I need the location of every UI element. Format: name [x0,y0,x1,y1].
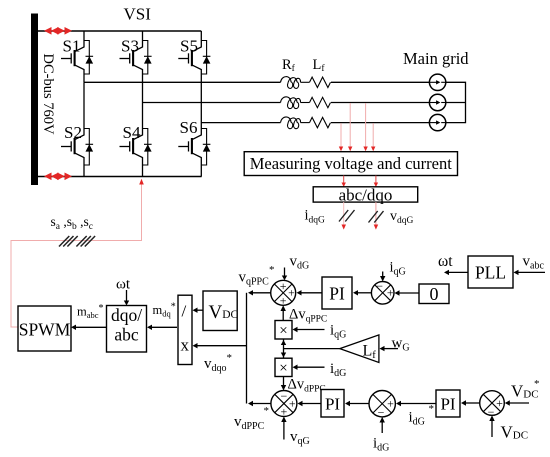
svg-text:/: / [182,302,187,321]
block zero reference [419,284,449,304]
inductor Rf phase A [281,77,301,89]
svg-text:+: + [280,279,287,293]
wire iqG into M1 [293,327,325,332]
wire wt output of PLL [444,270,468,275]
svg-text:S2: S2 [64,123,82,142]
svg-text:Measuring voltage and current: Measuring voltage and current [250,154,452,173]
svg-text:S3: S3 [121,37,139,56]
source grid A [429,74,445,90]
wire SD2 to PI d [345,401,369,406]
wire vqG input [281,417,286,440]
DC bus bar [31,14,38,186]
summer SD2 [369,391,395,420]
transistor S5 [178,31,210,82]
wire wt into dqo/abc [124,290,129,306]
wire vabc into PLL [514,270,546,275]
wire idqG output [342,202,347,230]
svg-text:abc: abc [114,325,139,345]
wire feedback bus vertical [246,293,248,404]
wire SQ2 to PI q [353,290,371,295]
svg-text:x: x [181,336,190,355]
resistor Lf phase A [310,77,331,87]
svg-text:*: * [269,264,275,276]
svg-text:Main grid: Main grid [403,49,469,68]
wire idG into SD2 [380,417,385,433]
svg-text:S6: S6 [180,118,198,137]
summer SQ1 [271,279,296,308]
wire iqG into SQ2 [380,272,385,282]
wire mult1 to SQ1 [281,305,286,320]
slash marks vdqG [369,211,384,223]
svg-text:+: + [387,397,394,411]
transistor S1 [61,31,93,82]
transistor S6 [178,82,210,176]
block dqo/abc [107,306,147,353]
wire sense 3 [363,103,367,151]
wire sense 4 [371,123,375,151]
block PI dc [436,390,460,417]
svg-text:+: + [387,286,394,300]
slash marks gate path [59,236,78,247]
svg-text:+: + [281,405,288,419]
wire wG into amp [380,346,399,351]
transistor S3 [120,31,152,82]
svg-text:−: − [376,279,383,293]
wire phase A [84,81,281,83]
wire sense 2 [348,103,352,151]
svg-text:ωt: ωt [116,277,131,293]
wire VDC* into SD3 [505,400,529,405]
wire meas to abc/dqo right [374,176,378,188]
inductor Rf phase C [281,117,301,129]
svg-text:*: * [534,378,540,390]
red arrows top rail [44,27,72,35]
transistor S4 [120,82,152,176]
svg-text:+: + [496,396,503,410]
svg-text:S5: S5 [180,37,198,56]
wire mabc* [71,325,107,330]
block divide-multiply [178,295,192,364]
wire phase B [143,102,281,104]
block VDC [203,291,237,331]
resistor Lf phase C [310,117,331,127]
wire PI q to summer [297,290,323,295]
svg-text:+: + [280,294,287,308]
svg-text:S4: S4 [123,123,141,142]
block SPWM [18,306,71,351]
wire SD3 to PI dc [461,400,480,405]
wire mdq* [147,325,177,330]
svg-text:0: 0 [430,284,439,304]
summer SQ2 [371,279,394,304]
wire vqPPC* output [248,290,271,295]
svg-text:−: − [488,405,495,419]
svg-text:×: × [279,361,287,377]
svg-text:+: + [288,286,295,300]
svg-text:*: * [264,405,270,417]
svg-text:S1: S1 [63,37,81,56]
block PI q [322,277,352,309]
block PLL [468,256,513,288]
svg-text:×: × [279,323,287,339]
inductor Rf phase B [281,97,301,109]
wire M2 to SD1 [281,377,286,391]
wire phase C [201,122,280,124]
red arrows bottom rail [44,173,72,181]
wire sense 1 [339,123,343,151]
svg-text:ωt: ωt [438,253,453,270]
slash marks idqG [339,210,355,222]
svg-text:abc/dqo: abc/dqo [339,186,393,205]
transistor S2 [61,82,93,176]
wire vdG input [282,268,287,281]
amplifier Lf gain [340,335,379,363]
svg-text:PI: PI [325,394,340,413]
wire vdqo* feedback [193,343,247,348]
svg-text:*: * [429,403,435,415]
resistor Lf phase B [310,97,331,107]
wire bottom DC rail [38,176,202,178]
wire idG into M2 [293,365,325,370]
svg-text:DC-bus 760V: DC-bus 760V [40,54,56,135]
source grid C [429,114,445,130]
wire coil to zigzag joins [301,81,310,83]
wire VDC into SD3 [489,415,494,437]
wire VDC to divider [193,308,204,313]
wire top DC rail [38,30,201,32]
wire PI d to SD1 [298,401,322,406]
svg-text:−: − [378,406,385,420]
wire vdPPC* output [248,401,271,406]
wire idG* reference [396,401,436,406]
wire grid neutral [446,82,466,122]
wire amp output to junction [284,348,340,350]
block PI d [321,390,344,418]
summer SD3 [480,391,505,419]
svg-text:PLL: PLL [475,262,506,282]
wire vdqG output [374,202,379,230]
block Measuring voltage and current [244,152,457,176]
block abc/dqo [313,187,418,202]
multiplier M2 [275,358,292,376]
wire meas to abc/dqo left [342,176,346,188]
wire junction to M1 and M2 [281,339,286,358]
svg-text:SPWM: SPWM [19,320,71,340]
svg-text:VSI: VSI [124,5,152,24]
wire gate signals sa sb sc [11,184,142,327]
svg-text:+: + [289,397,296,411]
svg-text:dqo/: dqo/ [111,305,142,325]
source grid B [429,94,445,110]
svg-text:PI: PI [329,283,345,303]
summer SD1 [271,389,297,418]
wire zero to SQ2 [395,290,420,295]
multiplier M1 [275,321,292,340]
svg-text:−: − [281,389,288,403]
svg-text:PI: PI [440,394,455,413]
